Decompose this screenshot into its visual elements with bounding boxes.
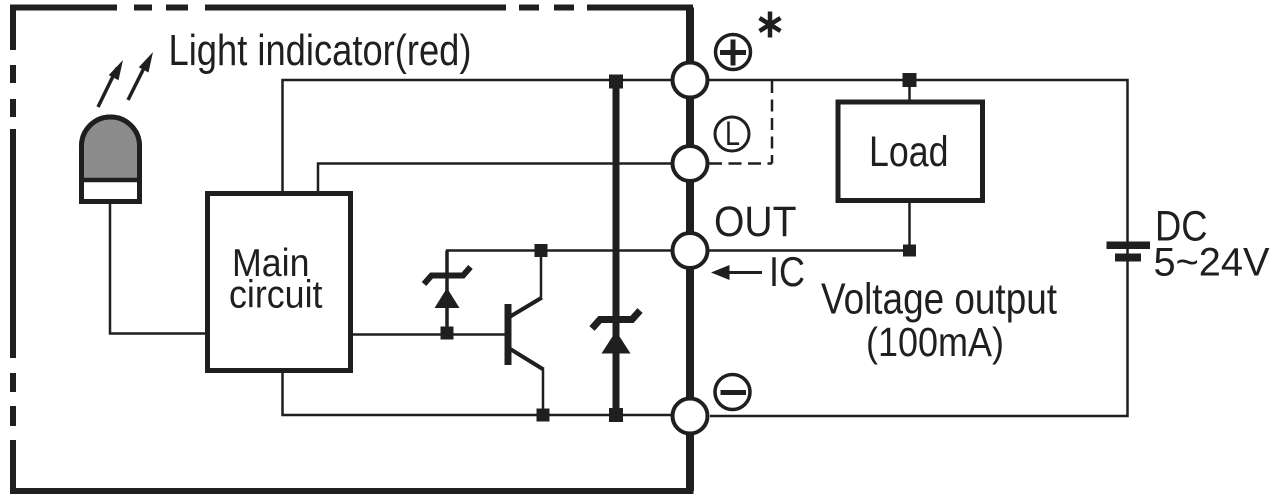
terminal - (circle) <box>673 399 708 434</box>
transistor Q1 collector stroke <box>509 298 543 318</box>
svg-text:circuit: circuit <box>229 274 323 317</box>
zener diode D1 anode triangle <box>435 288 460 308</box>
IC arrow <box>722 271 762 274</box>
svg-text:Voltage output: Voltage output <box>821 276 1057 324</box>
LED indicator body <box>82 117 140 201</box>
wire: LED cathode lead to main circuit <box>110 204 208 334</box>
junction D2 / + rail <box>609 75 623 89</box>
battery positive plate <box>1107 242 1151 250</box>
transistor Q1 base bar <box>505 304 512 365</box>
wire: zener D1 lead <box>445 251 449 333</box>
wire: + rail left (from main circuit top to + terminal) <box>283 80 672 194</box>
wire: main circuit base drive to transistor <box>353 333 505 336</box>
wire: load top lead <box>908 80 911 102</box>
main circuit block <box>208 194 351 371</box>
junction collector / OUT wire <box>535 244 548 257</box>
junction load / + rail <box>903 73 917 87</box>
LED indicator band separator <box>80 178 142 183</box>
svg-text:Load: Load <box>869 129 949 176</box>
svg-text:5~24V: 5~24V <box>1154 241 1270 285</box>
svg-text:Light indicator(red): Light indicator(red) <box>169 27 472 75</box>
symbol: circled plus <box>716 35 751 70</box>
LED emission arrow 2 head <box>139 52 153 73</box>
junction emitter / 0V wire <box>537 409 550 422</box>
symbol: circled L <box>715 117 749 151</box>
wire: L line (from main circuit top to L terminal) <box>318 164 671 194</box>
junction D2 / 0V wire <box>609 408 623 422</box>
terminal bus line (right edge) <box>686 8 694 492</box>
junction on base wire at D1 <box>441 327 454 340</box>
LED indicator body outline <box>82 117 140 201</box>
battery negative plate <box>1115 254 1141 262</box>
zener diode D1 cathode bar <box>424 267 471 284</box>
wire: 0V line left (main circuit bottom to - terminal) <box>283 370 672 415</box>
LED indicator dome (gray) <box>82 117 140 180</box>
wire: + rail right (+ terminal to battery) <box>709 80 1128 251</box>
LED emission arrow 1 shaft <box>98 68 117 107</box>
wire: OUT line left (zener D1 top corner to OUT terminal) <box>447 251 671 276</box>
LED emission arrow 2 shaft <box>128 64 146 100</box>
sensor case outline left edge (dashed) <box>10 5 16 495</box>
terminal + (circle) <box>673 63 708 98</box>
dashed link from + rail to L terminal <box>771 81 774 164</box>
transistor Q1 emitter stroke <box>509 348 544 370</box>
asterisk <box>760 12 781 38</box>
sensor case outline top edge (dashed) <box>10 5 693 11</box>
wire: surge zener D2 branch (thick) <box>613 80 620 415</box>
sensor case outline bottom edge <box>10 488 694 494</box>
wire: transistor collector riser <box>540 251 543 298</box>
terminal L (circle) <box>673 146 708 181</box>
zener diode D2 anode triangle <box>602 331 631 354</box>
wire: OUT line right (OUT terminal to load bottom) <box>709 201 910 251</box>
symbol: circled minus <box>715 375 750 410</box>
svg-text:(100mA): (100mA) <box>866 319 1004 365</box>
wire: 0V line right (- terminal to battery) <box>710 251 1128 416</box>
svg-text:IC: IC <box>769 248 805 295</box>
zener diode D2 cathode bar <box>592 311 640 329</box>
svg-text:OUT: OUT <box>714 198 797 246</box>
terminal OUT (circle) <box>673 233 708 268</box>
load box <box>838 102 983 201</box>
junction load / OUT wire <box>903 245 916 257</box>
wire: transistor emitter dropper <box>542 369 545 415</box>
svg-text:L: L <box>725 115 740 153</box>
LED emission arrow 1 head <box>109 60 123 80</box>
